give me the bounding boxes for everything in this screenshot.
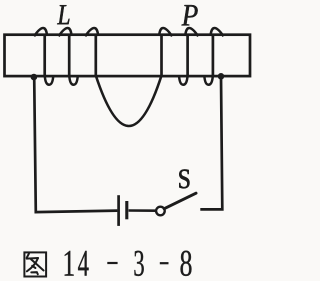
coil P turn 1 vertical [160, 34, 163, 76]
wire bottom right and right vertical [200, 77, 222, 210]
battery short plate [125, 201, 128, 219]
switch S lever [164, 193, 196, 209]
wire battery to switch [129, 209, 157, 212]
label P [182, 5, 198, 25]
caption number 14-3-8 [65, 251, 192, 276]
battery long plate [117, 195, 120, 226]
coil P turn 1 top arc [159, 28, 172, 36]
coil P turn 3 vertical [212, 34, 215, 76]
coil L turn 1 vertical [43, 34, 46, 76]
coil P turn 3 top arc [211, 28, 224, 36]
coil L turn 1 top arc [34, 28, 47, 36]
switch S pivot [156, 207, 165, 216]
iron core [5, 35, 251, 76]
wire left vertical and bottom left [34, 77, 117, 212]
coil P turn 2 vertical [186, 34, 189, 76]
coil L turn 1 bottom loop [45, 75, 54, 85]
coil L [34, 28, 98, 85]
coil L turn 2 vertical [68, 34, 71, 76]
label S [179, 169, 189, 188]
caption figure character tu (drawn) [24, 252, 46, 276]
coil L turn 2 bottom loop [69, 75, 78, 85]
label L [57, 5, 69, 24]
coil L turn 2 top arc [59, 28, 72, 36]
coil P turn 2 top arc [185, 28, 198, 36]
coil L turn 3 vertical [94, 34, 97, 76]
junction dot right [218, 73, 225, 80]
coil L turn 3 top arc [85, 28, 98, 36]
caption dash 1 [107, 262, 117, 264]
coil P turn 3 bottom loop [204, 75, 213, 85]
wire L-P hanging loop [96, 76, 162, 127]
junction dot left [31, 74, 38, 81]
coil P [159, 28, 223, 85]
coil P turn 2 bottom loop [179, 75, 188, 85]
caption dash 2 [160, 262, 169, 264]
